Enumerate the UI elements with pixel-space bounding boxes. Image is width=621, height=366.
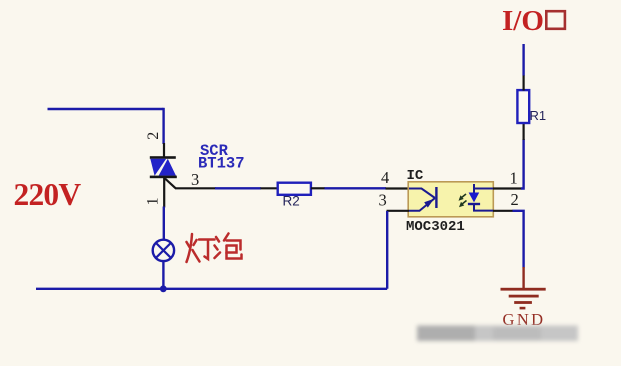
lamp DS1 circle — [153, 240, 174, 261]
resistor R1 body — [517, 90, 529, 123]
svg-text:R1: R1 — [530, 108, 547, 123]
svg-text:IC: IC — [407, 168, 424, 184]
wire: blue segment from R2 to optocoupler pin 4 — [325, 187, 387, 189]
wire: pin 2 to GND corner — [513, 210, 524, 268]
optocoupler U1 pin 3 lead — [387, 210, 410, 212]
optocoupler U1 pin 4 lead — [386, 187, 410, 189]
svg-text:3: 3 — [379, 191, 387, 210]
node label 口 (port) drawn square — [546, 11, 565, 29]
wire: gate stub black from triac gate — [175, 187, 216, 189]
resistor R1 bottom lead — [522, 123, 524, 140]
triac Q1 BT137 right triangle — [159, 159, 176, 176]
triac Q1 BT137 bottom bar (MT1) — [150, 176, 177, 179]
ground GND bar 2 — [509, 295, 539, 298]
lamp DS1 X diagonal 2 — [156, 243, 171, 258]
wire: blue segment from gate to R2 — [215, 187, 261, 189]
svg-text:BT137: BT137 — [198, 154, 245, 172]
triac Q1 BT137 pin 2 lead (top) — [163, 143, 165, 157]
wire: vertical from optocoupler pin 3 down to bottom line — [386, 211, 388, 289]
svg-text:R2: R2 — [283, 194, 300, 209]
resistor R2 body — [278, 183, 311, 195]
label 灯泡 (lamp, drawn strokes) — [187, 234, 242, 263]
wire: pin 1 corner up to R1 — [521, 139, 524, 190]
svg-text:I/O: I/O — [502, 5, 544, 37]
resistor R2 right lead — [311, 187, 325, 189]
optocoupler U1 light arrow lower — [462, 201, 467, 205]
optocoupler U1 internal LED cathode line to pin 3 — [409, 198, 435, 211]
optocoupler U1 internal line to pin 2 — [474, 205, 493, 211]
ground GND bar 3 — [514, 301, 532, 304]
optocoupler U1 phototriac bar — [468, 203, 480, 205]
svg-text:1: 1 — [510, 169, 518, 188]
svg-text:1: 1 — [144, 197, 161, 205]
ground GND bar 1 — [501, 288, 546, 291]
optocoupler U1 internal LED arrow head — [424, 199, 434, 208]
svg-text:MOC3021: MOC3021 — [406, 219, 465, 235]
optocoupler U1 pin 2 lead — [493, 210, 513, 212]
wire: from R1 up to I/O port — [522, 44, 524, 76]
optocoupler U1 light arrow upper — [461, 194, 466, 198]
lamp DS1 X diagonal 1 — [156, 243, 171, 258]
resistor R1 top lead — [522, 75, 524, 91]
wire: AC line top horizontal from 220V source to triac MT2 — [48, 108, 164, 110]
svg-text:2: 2 — [511, 190, 519, 209]
optocoupler U1 internal LED cathode bar — [435, 187, 437, 208]
wire: from triac pin1 down to lamp — [163, 207, 165, 241]
wire: from lamp down to bottom AC line — [162, 261, 164, 289]
svg-text:4: 4 — [381, 168, 389, 187]
wire: bottom AC return line — [36, 288, 387, 290]
triac Q1 BT137 gate lead (pin 3) diagonal — [165, 179, 176, 189]
optocoupler U1 phototriac triangle — [469, 193, 480, 203]
triac Q1 BT137 pin 1 lead (bottom) — [163, 178, 165, 208]
resistor R2 left lead — [261, 187, 279, 189]
ground GND lead — [522, 267, 524, 289]
svg-text:3: 3 — [191, 170, 199, 189]
triac Q1 BT137 left triangle — [150, 159, 166, 176]
triac Q1 BT137 top bar (MT2) — [150, 156, 176, 159]
optocoupler U1 internal line to pin 1 — [474, 188, 493, 190]
ground GND bar 4 — [520, 307, 526, 310]
optocoupler U1 phototriac top stub — [473, 184, 475, 194]
optocoupler U1 pin 1 lead — [493, 187, 522, 189]
optocoupler U1 MOC3021 body — [408, 182, 493, 217]
optocoupler U1 internal LED anode line from pin 4 — [409, 189, 435, 199]
wire: vertical drop from top corner to triac pin 2 — [162, 108, 164, 144]
svg-text:220V: 220V — [14, 177, 82, 212]
watermark gray band — [417, 326, 578, 342]
svg-text:2: 2 — [145, 132, 162, 140]
junction at lamp and bottom line — [160, 285, 167, 292]
